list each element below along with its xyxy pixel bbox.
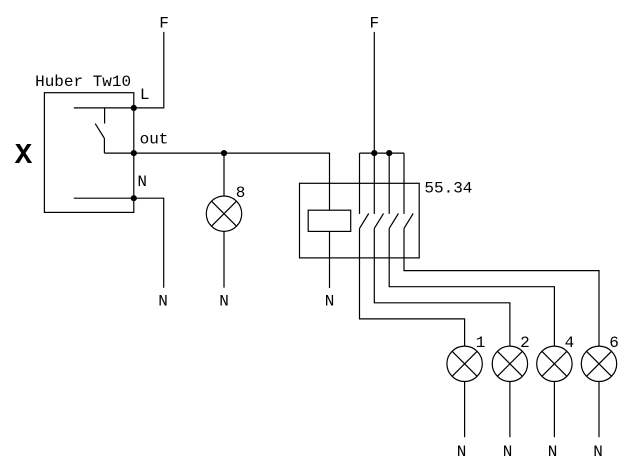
wire contact 2 to lamp 2	[374, 228, 510, 346]
svg-text:55.34: 55.34	[424, 180, 472, 198]
lamp 1	[447, 346, 482, 381]
svg-text:N: N	[325, 293, 335, 311]
lamp 4	[537, 346, 572, 381]
svg-text:N: N	[593, 443, 603, 461]
node junction bus contact 3	[386, 150, 392, 156]
wire out to relay coil	[134, 153, 330, 210]
wire coil to neutral	[329, 231, 331, 288]
svg-text:N: N	[457, 443, 467, 461]
wire lamp 6 to neutral	[598, 382, 600, 438]
relay contact 1	[360, 153, 369, 228]
relay coil A1-A2	[308, 210, 351, 231]
svg-text:F: F	[369, 14, 379, 32]
svg-text:N: N	[548, 443, 558, 461]
wire lamp 8 to neutral	[223, 231, 225, 287]
svg-text:N: N	[158, 293, 168, 311]
svg-text:4: 4	[565, 334, 575, 352]
svg-text:2: 2	[520, 334, 530, 352]
svg-text:F: F	[159, 14, 169, 32]
svg-text:N: N	[137, 173, 147, 191]
node junction bus contact 2	[371, 150, 377, 156]
relay contact 3	[389, 153, 398, 228]
wire lamp 2 to neutral	[509, 382, 511, 438]
svg-text:1: 1	[476, 334, 486, 352]
node L	[131, 105, 137, 111]
node out	[131, 150, 137, 156]
node N	[131, 195, 137, 201]
wire contact 1 to lamp 1	[360, 228, 465, 346]
switch S1 (timer contact)	[95, 108, 104, 153]
svg-text:8: 8	[236, 184, 246, 202]
wire contact supply bus	[360, 152, 405, 154]
svg-text:6: 6	[609, 334, 619, 352]
lamp 2	[492, 346, 527, 381]
svg-text:L: L	[140, 86, 150, 104]
svg-text:out: out	[140, 131, 169, 149]
lamp 6	[581, 346, 616, 381]
wire contact 4 to lamp 6	[404, 228, 599, 346]
wire lamp 1 to neutral	[464, 382, 466, 438]
svg-text:X: X	[15, 139, 33, 172]
svg-text:Huber Tw10: Huber Tw10	[35, 73, 131, 91]
relay contact 4	[404, 153, 413, 228]
wire L to F	[134, 32, 164, 108]
svg-text:N: N	[503, 443, 513, 461]
wire L terminal inside box	[74, 107, 134, 109]
lamp 8	[206, 196, 241, 231]
wire F down to relay contact bus	[373, 32, 375, 153]
node junction lamp 8 branch	[221, 150, 227, 156]
svg-text:N: N	[219, 293, 229, 311]
wire lamp 8 feed	[223, 153, 225, 196]
wire contact 3 to lamp 4	[389, 228, 554, 346]
wire lamp 4 to neutral	[553, 382, 555, 438]
wire out terminal inside box	[104, 152, 133, 154]
timer switch box X (Huber Tw10)	[44, 93, 133, 213]
wire timer N to neutral	[134, 198, 164, 288]
relay U1 box	[300, 183, 420, 258]
wire N terminal inside box	[74, 197, 134, 199]
relay contact 2	[374, 153, 383, 228]
